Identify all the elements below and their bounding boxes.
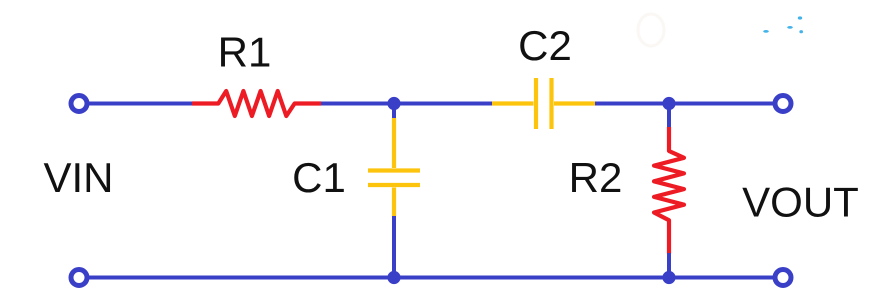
svg-text:C2: C2 bbox=[518, 22, 572, 69]
resistor R1 bbox=[192, 91, 321, 116]
wire bottom rail bbox=[89, 276, 774, 280]
artifact cyan speck 3 bbox=[798, 16, 802, 19]
wire R2 to bottom rail bbox=[667, 253, 671, 278]
terminal VOUT top (output +) bbox=[775, 96, 791, 112]
wire node A down to C1 bbox=[392, 104, 396, 121]
terminal VIN bottom (input -) bbox=[71, 270, 87, 286]
artifact cyan speck 2 bbox=[787, 26, 793, 29]
node A junction dot (R1 / C1 / C2) bbox=[387, 97, 400, 110]
node C junction dot (C1 to bottom rail) bbox=[387, 271, 400, 284]
node B junction dot (C2 / R2 / VOUT) bbox=[662, 97, 675, 110]
wire R1 to C2 (through node A) bbox=[321, 102, 492, 106]
svg-text:C1: C1 bbox=[292, 154, 346, 201]
terminal VIN top (input +) bbox=[71, 96, 87, 112]
wire node B down to R2 bbox=[667, 104, 671, 129]
wire C1 to bottom rail bbox=[392, 216, 396, 278]
resistor R2 bbox=[654, 127, 684, 254]
node D junction dot (R2 to bottom rail) bbox=[662, 271, 675, 284]
artifact smudge (faint jpeg ghost right of C2 label) bbox=[638, 14, 664, 46]
svg-text:VIN: VIN bbox=[43, 154, 113, 201]
svg-text:R2: R2 bbox=[569, 154, 623, 201]
artifact cyan speck 1 bbox=[763, 30, 769, 33]
capacitor C2 bbox=[492, 78, 595, 129]
capacitor C1 bbox=[368, 118, 420, 217]
terminal VOUT bottom (output -) bbox=[775, 270, 791, 286]
wire VIN top terminal to R1 bbox=[89, 102, 194, 106]
wire C2 to VOUT top terminal (through node B) bbox=[595, 102, 773, 106]
svg-text:VOUT: VOUT bbox=[742, 179, 859, 226]
svg-text:R1: R1 bbox=[218, 29, 272, 76]
artifact cyan speck 4 bbox=[799, 30, 803, 33]
